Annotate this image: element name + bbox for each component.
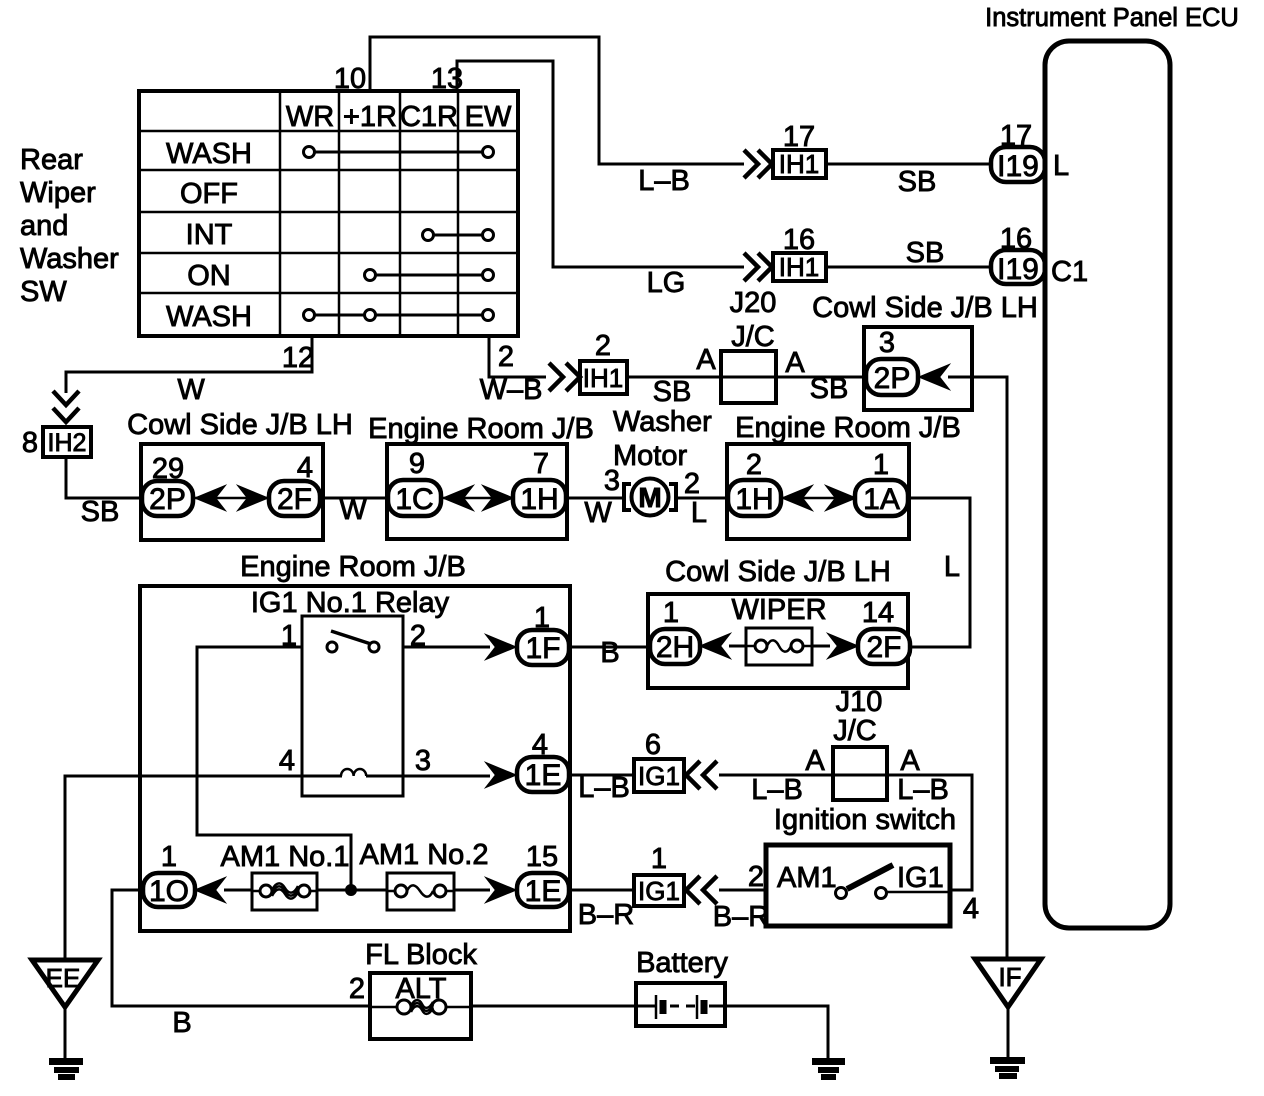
svg-text:W: W — [339, 494, 367, 526]
svg-text:I19: I19 — [997, 253, 1039, 286]
svg-text:IH1: IH1 — [779, 252, 819, 282]
wire table pin2 to IH1, W-B — [489, 336, 546, 377]
svg-text:J10: J10 — [836, 686, 883, 718]
fuse F4 ALT box — [370, 973, 471, 1039]
svg-text:L: L — [1053, 150, 1069, 182]
wire 1E to IG1, L-B — [569, 774, 634, 777]
svg-text:Wiper: Wiper — [20, 177, 96, 209]
table header labels WR +1R C1R EW — [286, 101, 512, 133]
svg-text:9: 9 — [409, 448, 425, 480]
svg-text:ON: ON — [187, 260, 231, 292]
relay switch contacts — [327, 631, 379, 652]
wire 1F to 2H, B — [569, 646, 651, 649]
svg-text:2H: 2H — [656, 631, 694, 664]
switch contact row INT (C1R-EW) — [423, 230, 494, 241]
ignition switch contacts — [836, 865, 951, 899]
svg-text:IH1: IH1 — [583, 363, 623, 393]
svg-text:4: 4 — [297, 452, 313, 484]
svg-text:3: 3 — [879, 327, 895, 359]
fuse F1 WIPER box — [746, 628, 812, 665]
svg-text:J20: J20 — [730, 287, 777, 319]
svg-text:A: A — [785, 347, 805, 379]
junction block box Cowl Side J/B LH (left) — [141, 444, 323, 540]
wire relay pin2 to 1F — [403, 646, 490, 649]
svg-text:L–B: L–B — [751, 774, 803, 806]
connector 1H — [728, 480, 781, 516]
svg-text:L–B: L–B — [638, 165, 690, 197]
svg-text:Engine Room J/B: Engine Room J/B — [240, 551, 466, 583]
svg-text:7: 7 — [533, 448, 549, 480]
svg-text:3: 3 — [604, 465, 620, 497]
arrow left in engine J/B right — [783, 487, 811, 510]
svg-text:1: 1 — [161, 841, 177, 873]
svg-text:L: L — [944, 551, 960, 583]
svg-text:W–B: W–B — [480, 374, 543, 406]
wire IG1 to ignition switch, B-R — [719, 889, 766, 892]
svg-text:Cowl Side J/B LH: Cowl Side J/B LH — [665, 556, 891, 588]
svg-text:IH2: IH2 — [48, 429, 87, 457]
label Rear Wiper and Washer SW — [20, 144, 119, 308]
wire SB row17 — [826, 163, 992, 166]
arrow left at 2P — [920, 366, 948, 389]
svg-text:SB: SB — [810, 373, 849, 405]
switch contact row ON (+1R-EW) — [365, 270, 494, 281]
svg-text:1: 1 — [873, 449, 889, 481]
wire J10 to ignition switch pin4 — [887, 775, 972, 890]
svg-text:12: 12 — [282, 342, 314, 374]
svg-text:OFF: OFF — [180, 178, 238, 210]
junction node dot — [346, 885, 356, 895]
arrow right in engine J/B right — [827, 487, 855, 510]
wire relay pin1 to junction — [197, 647, 351, 888]
svg-text:EW: EW — [465, 101, 512, 133]
battery BT1 box — [636, 983, 725, 1026]
wire 1C to 1H — [441, 497, 513, 500]
svg-text:1A: 1A — [863, 483, 900, 516]
fuse F2 AM1 No.1 box — [252, 873, 317, 910]
svg-text:Washer: Washer — [20, 243, 119, 275]
svg-text:Instrument Panel ECU: Instrument Panel ECU — [985, 4, 1239, 32]
wire 1A down to wiper fuse 2F, L — [908, 498, 970, 647]
svg-text:A: A — [696, 344, 716, 376]
wire fuse1 to fuse2 — [317, 889, 387, 892]
switch SW2 Ignition switch box — [766, 845, 950, 926]
svg-text:2: 2 — [349, 973, 365, 1005]
wire IF to ground — [1007, 1005, 1010, 1060]
switch contact row WASH (WR-EW) — [304, 147, 494, 158]
svg-text:L: L — [691, 497, 707, 529]
svg-text:B–R: B–R — [578, 899, 634, 931]
wire IH2 to 2P, SB — [66, 457, 142, 498]
svg-text:SB: SB — [653, 376, 692, 408]
relay K1 box — [302, 616, 403, 796]
connector 2P (top right) — [866, 359, 918, 395]
ground under IF — [991, 1058, 1024, 1078]
switch SW1 Rear Wiper and Washer SW table — [139, 91, 518, 336]
arrow right in cowl J/B — [239, 487, 267, 510]
wire 1H to washer motor, W — [566, 497, 624, 500]
connector IH1 pin 2 — [580, 361, 627, 394]
svg-text:14: 14 — [862, 597, 894, 629]
connector 1O — [143, 873, 195, 908]
junction block box Engine Room J/B (right) — [727, 444, 909, 539]
connector 1E (relay out) — [517, 757, 569, 792]
svg-text:SW: SW — [20, 276, 67, 308]
svg-text:15: 15 — [526, 841, 558, 873]
wire pin12 to IH2 — [66, 336, 312, 393]
svg-text:Washer: Washer — [613, 406, 712, 438]
connector 2F (wiper) — [858, 629, 910, 664]
svg-text:B: B — [172, 1007, 191, 1039]
svg-text:SB: SB — [906, 237, 945, 269]
svg-text:Motor: Motor — [613, 440, 687, 472]
svg-text:Rear: Rear — [20, 144, 83, 176]
connector 1F — [517, 630, 569, 665]
arrow into 1F — [487, 636, 515, 659]
wire pin10 to L-B row — [370, 37, 744, 164]
junction connector J10 J/C box — [833, 747, 887, 800]
svg-text:16: 16 — [783, 224, 815, 256]
fuse F3 AM1 No.2 box — [387, 873, 454, 910]
svg-text:C1R: C1R — [400, 101, 458, 133]
svg-text:B: B — [600, 637, 619, 669]
ECU U1 Instrument Panel ECU — [985, 4, 1239, 928]
wire EE riser to coil — [65, 776, 342, 962]
wire IG1 to J10 J/C, L-B — [719, 774, 887, 777]
arrow left at 2H — [701, 635, 729, 658]
connector chevrons into IH1 pin17 — [744, 150, 772, 178]
connector IG1 pin 1 — [634, 875, 684, 906]
svg-text:16: 16 — [1000, 223, 1032, 255]
connector chevrons into IH1 pin16 — [744, 253, 772, 281]
svg-text:2: 2 — [684, 468, 700, 500]
wire battery to ground — [709, 1006, 828, 1061]
wire 1H to 1A — [781, 497, 855, 500]
connector chevrons down into IH2 — [53, 391, 79, 422]
arrow left in cowl J/B — [196, 487, 224, 510]
svg-text:C1: C1 — [1051, 256, 1088, 288]
wire 2F to 1C, W — [320, 497, 389, 500]
wire fuse to 2F arrow — [812, 645, 830, 648]
svg-text:1C: 1C — [395, 483, 433, 516]
svg-text:M: M — [638, 482, 661, 513]
svg-text:Cowl Side J/B LH: Cowl Side J/B LH — [127, 409, 353, 441]
svg-text:17: 17 — [1000, 120, 1032, 152]
svg-text:IH1: IH1 — [779, 149, 819, 179]
connector IG1 pin 6 — [634, 759, 684, 792]
svg-text:SB: SB — [898, 166, 937, 198]
wire pin13 to LG row — [457, 61, 744, 267]
wire 2P to IF ground riser — [948, 377, 1007, 960]
wire coil to 1E — [366, 775, 490, 778]
svg-text:WASH: WASH — [166, 138, 252, 170]
svg-text:8: 8 — [22, 427, 38, 459]
svg-text:and: and — [20, 210, 68, 242]
svg-text:3: 3 — [415, 745, 431, 777]
svg-text:2F: 2F — [866, 631, 901, 664]
svg-text:Cowl Side J/B LH: Cowl Side J/B LH — [812, 292, 1038, 324]
wire EE to ground — [64, 1005, 67, 1061]
arrow into 1E top — [487, 764, 515, 787]
svg-text:1E: 1E — [525, 759, 562, 792]
connector chevrons out of IG1 pin6 — [686, 761, 717, 789]
relay coil L1 — [341, 769, 366, 776]
svg-text:L–B: L–B — [897, 774, 949, 806]
svg-text:17: 17 — [783, 121, 815, 153]
arrow right in engine J/B — [484, 487, 512, 510]
svg-text:I19: I19 — [997, 150, 1039, 183]
junction block box Cowl Side J/B LH (top right) — [864, 327, 972, 410]
junction connector J20 J/C — [721, 287, 776, 403]
svg-text:2: 2 — [748, 861, 764, 893]
svg-text:Engine Room J/B: Engine Room J/B — [368, 413, 594, 445]
svg-text:J/C: J/C — [731, 321, 775, 353]
svg-text:FL Block: FL Block — [365, 939, 477, 971]
junction block box Cowl Side J/B LH (wiper) — [648, 594, 908, 688]
connector 1A — [855, 480, 908, 516]
svg-text:10: 10 — [334, 63, 366, 95]
svg-text:B–R: B–R — [713, 901, 769, 933]
table row labels — [166, 138, 252, 333]
svg-text:IG1: IG1 — [897, 862, 944, 894]
connector 2F — [269, 481, 320, 516]
svg-text:1F: 1F — [525, 632, 560, 665]
svg-text:IG1 No.1 Relay: IG1 No.1 Relay — [251, 587, 450, 619]
svg-text:6: 6 — [645, 729, 661, 761]
connector IH1 pin 17 — [773, 149, 826, 179]
connector 2P — [142, 481, 193, 516]
svg-text:WASH: WASH — [166, 301, 252, 333]
svg-text:W: W — [584, 497, 612, 529]
connector 1H — [513, 480, 566, 516]
arrow left at 1O — [196, 879, 224, 902]
svg-text:2: 2 — [498, 341, 514, 373]
svg-text:A: A — [900, 745, 920, 777]
arrow left in engine J/B — [444, 487, 472, 510]
svg-text:1H: 1H — [735, 483, 773, 516]
arrow into 1E bottom — [487, 879, 515, 902]
svg-text:IF: IF — [998, 962, 1021, 992]
svg-text:W: W — [177, 374, 205, 406]
svg-text:AM1 No.2: AM1 No.2 — [360, 839, 489, 871]
svg-text:4: 4 — [279, 745, 295, 777]
wire 1E to IG1 pin1, B-R — [569, 889, 634, 892]
svg-text:J/C: J/C — [833, 715, 877, 747]
junction block box Engine Room J/B (relay) — [140, 586, 570, 931]
svg-text:LG: LG — [647, 267, 686, 299]
svg-text:SB: SB — [81, 496, 120, 528]
svg-text:L–B: L–B — [578, 772, 630, 804]
connector IH2 — [43, 427, 91, 457]
wire 2H arrow to fuse — [729, 645, 746, 648]
junction block box Engine Room J/B (washer row) — [387, 444, 567, 539]
svg-text:Ignition switch: Ignition switch — [774, 804, 956, 836]
wire arrow to fuse1 — [224, 889, 252, 892]
ground IF triangle — [975, 959, 1041, 1007]
svg-text:4: 4 — [532, 729, 548, 761]
connector chevrons into IH1 pin2 — [549, 363, 580, 391]
svg-text:4: 4 — [963, 893, 979, 925]
svg-text:IG1: IG1 — [638, 876, 680, 906]
arrow into 2F — [829, 635, 857, 658]
svg-text:2P: 2P — [149, 483, 186, 516]
wire 1O to ALT fuse, B — [112, 890, 370, 1006]
wire ALT to battery — [471, 1005, 656, 1008]
svg-text:WR: WR — [286, 101, 334, 133]
ground EE triangle — [32, 960, 98, 1007]
svg-text:INT: INT — [186, 219, 233, 251]
svg-text:+1R: +1R — [343, 101, 397, 133]
svg-text:AM1 No.1: AM1 No.1 — [221, 841, 350, 873]
svg-text:2F: 2F — [277, 483, 312, 516]
svg-text:WIPER: WIPER — [731, 594, 826, 626]
label Washer Motor — [613, 406, 712, 472]
svg-text:1: 1 — [534, 602, 550, 634]
connector 1C — [388, 480, 441, 516]
connector I19 pin17 — [991, 147, 1045, 183]
connector I19 pin16 — [991, 250, 1045, 286]
wire IH1 to J20 J/C, SB — [627, 376, 866, 379]
svg-text:1E: 1E — [525, 875, 562, 908]
wire motor to 1H, L — [676, 497, 729, 500]
svg-text:IG1: IG1 — [638, 761, 680, 791]
connector chevrons out of IG1 pin1 — [686, 876, 717, 904]
svg-text:A: A — [805, 745, 825, 777]
connector 1E (bottom) — [517, 873, 569, 908]
svg-text:2: 2 — [746, 449, 762, 481]
svg-text:1H: 1H — [520, 483, 558, 516]
svg-text:2P: 2P — [874, 362, 911, 395]
svg-text:Battery: Battery — [636, 947, 728, 979]
switch contact row WASH2 (WR-+1R-EW) — [304, 310, 494, 321]
connector IH1 pin 16 — [773, 252, 826, 282]
svg-text:2: 2 — [595, 330, 611, 362]
svg-text:EE: EE — [46, 963, 81, 993]
svg-text:1O: 1O — [149, 875, 189, 908]
wire SB row16 — [826, 266, 991, 269]
svg-text:Engine Room J/B: Engine Room J/B — [735, 412, 961, 444]
svg-text:1: 1 — [663, 597, 679, 629]
motor M1 washer motor — [624, 479, 676, 516]
wire fuse2 to 1E bottom — [454, 889, 490, 892]
connector 2H — [650, 629, 700, 664]
wire 2P to 2F — [193, 497, 269, 500]
ground under EE — [50, 1059, 82, 1079]
ground under battery — [813, 1059, 844, 1079]
svg-text:AM1: AM1 — [777, 862, 837, 894]
svg-text:1: 1 — [651, 843, 667, 875]
